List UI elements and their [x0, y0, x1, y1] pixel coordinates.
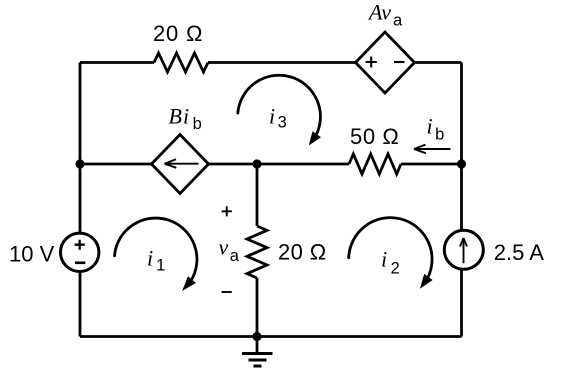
node: junction left (10V branch / middle net): [75, 159, 84, 168]
wire: left branch top-left corner to bottom-left corner: [79, 63, 82, 337]
wire: middle net left node to right node (gap at 50-ohm resistor): [80, 163, 462, 166]
svg-text:20 Ω: 20 Ω: [153, 21, 203, 46]
ground symbol: [242, 337, 273, 367]
resistor 20 ohm (center vertical): [247, 226, 267, 278]
resistor 20 ohm (top horizontal): [154, 53, 208, 72]
dependent voltage source Av_a (diamond, top) with polarity marks: [356, 32, 415, 93]
independent current source 2.5 A (circle, right) with up arrow: [444, 230, 483, 269]
node: junction right (middle net / 2.5A branch): [457, 159, 466, 168]
node: junction bottom (ground reference): [252, 332, 261, 341]
node: junction center (middle net / 20-ohm branch): [252, 159, 261, 168]
svg-text:va: va: [219, 234, 240, 264]
svg-text:Ava: Ava: [367, 0, 403, 30]
svg-text:Bib: Bib: [169, 103, 203, 132]
svg-text:i2: i2: [381, 247, 400, 278]
svg-text:i1: i1: [147, 246, 165, 275]
dependent current source Bi_b (diamond, middle) with left-pointing arrow: [152, 135, 209, 194]
wire: center branch middle node to ground node (gap at 20-ohm resistor): [256, 164, 259, 337]
mesh current arrow i3 (clockwise, top mesh): [238, 75, 321, 145]
svg-text:10 V: 10 V: [9, 242, 55, 267]
svg-text:i3: i3: [269, 103, 287, 131]
mesh current arrow i1 (clockwise, bottom-left mesh): [115, 218, 197, 291]
wire: top net from top-left corner to top-right corner (gap at 20-ohm resistor): [80, 61, 462, 64]
mesh current arrow i2 (clockwise, bottom-right mesh): [349, 218, 433, 289]
wire: right branch top-right corner to bottom-right corner: [460, 63, 463, 337]
minus polarity mark of v_a: [222, 291, 232, 293]
independent voltage source 10 V (circle, left) with plus-minus marks: [60, 233, 98, 271]
plus polarity mark of v_a: [222, 206, 232, 216]
svg-text:50 Ω: 50 Ω: [350, 124, 399, 149]
svg-text:20 Ω: 20 Ω: [278, 240, 327, 265]
svg-text:2.5 A: 2.5 A: [494, 240, 544, 265]
branch current arrow for i_b (points left): [414, 145, 451, 154]
wire: bottom net bottom-left to bottom-right: [80, 335, 462, 338]
svg-text:ib: ib: [427, 114, 445, 144]
resistor 50 ohm (middle horizontal): [349, 154, 401, 174]
